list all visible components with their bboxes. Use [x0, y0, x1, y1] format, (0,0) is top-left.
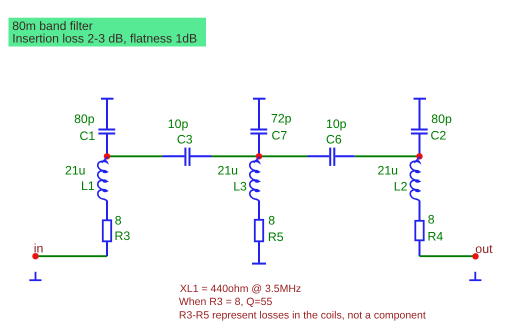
wire C3 right lead — [191, 155, 212, 157]
inductor L3 — [250, 157, 260, 201]
wire node A to C3 — [107, 155, 163, 157]
svg-text:72p: 72p — [271, 112, 292, 126]
wire R3 bottom lead — [106, 241, 108, 256]
svg-text:21u: 21u — [218, 163, 239, 177]
label R4 value — [428, 213, 435, 227]
capacitor C7 plates — [250, 130, 267, 134]
label in — [34, 242, 44, 256]
capacitor C6 plates — [330, 148, 334, 166]
svg-text:R4: R4 — [428, 229, 444, 243]
label C3 name — [177, 133, 193, 147]
svg-text:21u: 21u — [378, 163, 399, 177]
svg-text:80p: 80p — [74, 112, 95, 126]
svg-text:Insertion loss 2-3 dB, flatnes: Insertion loss 2-3 dB, flatness 1dB — [12, 31, 197, 45]
node B junction dot — [256, 153, 262, 159]
note line 2 — [179, 296, 273, 308]
node out terminal dot — [472, 253, 478, 259]
label C1 value — [74, 112, 95, 126]
wire C3 to node B to C6 — [212, 155, 308, 157]
wire C6 left lead — [308, 155, 330, 157]
title text line 1 — [12, 19, 93, 33]
label L1 value — [65, 163, 86, 177]
label R3 name — [115, 229, 131, 243]
wire in to R3 — [36, 255, 108, 257]
node A junction dot — [104, 153, 110, 159]
label L2 value — [378, 163, 399, 177]
wire top lead of C2 — [419, 99, 421, 129]
label out — [475, 242, 493, 256]
inductor L1 — [98, 157, 108, 201]
wire below L2 — [419, 201, 421, 221]
label C7 name — [272, 128, 288, 142]
wire below L1 — [106, 201, 108, 221]
wire top lead of C1 — [106, 99, 108, 129]
wire top lead of C7 — [258, 99, 260, 129]
label R3 value — [115, 214, 122, 228]
capacitor C2 plates — [411, 130, 428, 134]
wire C6 to node C — [355, 155, 420, 157]
resistor R4 — [415, 221, 423, 241]
terminal bar bottom of R5 — [252, 263, 266, 265]
wire R4 bottom lead — [419, 240, 421, 256]
ground symbol at out — [469, 272, 481, 280]
ground symbol at in — [29, 272, 41, 280]
svg-text:C6: C6 — [326, 133, 342, 147]
svg-text:10p: 10p — [168, 117, 189, 131]
label C3 value — [168, 117, 189, 131]
svg-text:When R3 = 8, Q=55: When R3 = 8, Q=55 — [179, 296, 273, 308]
svg-text:8: 8 — [115, 214, 122, 228]
svg-text:R3-R5 represent losses in the: R3-R5 represent losses in the coils, not… — [179, 310, 426, 322]
svg-text:in: in — [34, 242, 44, 256]
wire C6 right lead — [335, 155, 355, 157]
label C1 name — [80, 129, 96, 143]
wire C1 bottom lead — [106, 134, 108, 156]
svg-text:8: 8 — [268, 214, 275, 228]
svg-text:R3: R3 — [115, 229, 131, 243]
label L3 name — [233, 179, 247, 193]
svg-text:C7: C7 — [272, 128, 288, 142]
svg-text:8: 8 — [428, 213, 435, 227]
note line 1 — [180, 283, 301, 295]
terminal bar top of C2 — [414, 98, 427, 100]
wire C7 bottom lead — [258, 134, 260, 156]
note line 3 — [179, 310, 426, 322]
svg-text:L3: L3 — [233, 179, 247, 193]
label C6 value — [326, 117, 347, 131]
node in terminal dot — [32, 253, 38, 259]
svg-text:10p: 10p — [326, 117, 347, 131]
label C2 value — [431, 112, 452, 126]
inductor L2 — [410, 157, 420, 201]
node C junction dot — [416, 153, 422, 159]
title block background — [9, 18, 207, 47]
label L3 value — [218, 163, 239, 177]
wire below L3 — [258, 201, 260, 221]
label L2 name — [394, 179, 408, 193]
capacitor C3 plates — [185, 148, 189, 166]
wire R5 bottom lead — [258, 241, 260, 263]
svg-text:out: out — [475, 242, 493, 256]
label R4 name — [428, 229, 444, 243]
svg-text:80p: 80p — [431, 112, 452, 126]
wire C3 left lead — [163, 155, 185, 157]
label R5 name — [268, 230, 284, 244]
capacitor C1 plates — [98, 130, 115, 134]
svg-text:21u: 21u — [65, 163, 86, 177]
title text line 2 — [12, 31, 197, 45]
label R5 value — [268, 214, 275, 228]
terminal bar top of C1 — [101, 98, 114, 100]
resistor R5 — [255, 220, 263, 242]
label C6 name — [326, 133, 342, 147]
label C7 value — [271, 112, 292, 126]
label C2 name — [431, 129, 447, 143]
svg-text:C2: C2 — [431, 129, 447, 143]
resistor R3 — [103, 220, 111, 241]
svg-text:L2: L2 — [394, 179, 408, 193]
svg-text:R5: R5 — [268, 230, 284, 244]
svg-text:C3: C3 — [177, 133, 193, 147]
svg-text:XL1 = 440ohm @ 3.5MHz: XL1 = 440ohm @ 3.5MHz — [180, 283, 301, 295]
wire R4 to out — [420, 255, 476, 257]
wire C2 bottom lead — [419, 134, 421, 156]
svg-text:C1: C1 — [80, 129, 96, 143]
svg-text:L1: L1 — [81, 179, 95, 193]
terminal bar top of C7 — [253, 98, 266, 100]
label L1 name — [81, 179, 95, 193]
